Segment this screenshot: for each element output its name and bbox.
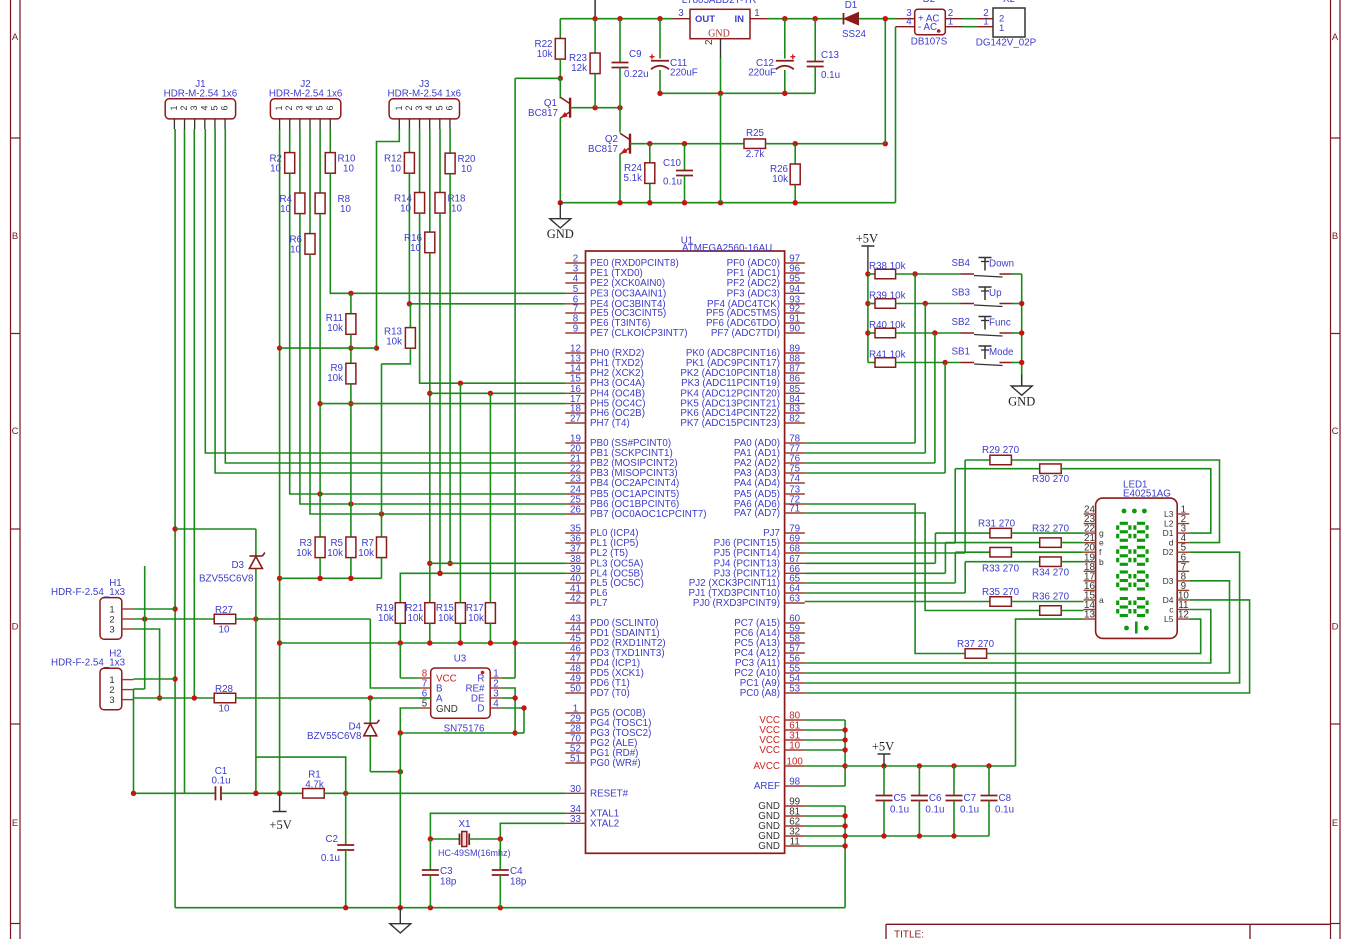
R15 column up to PH3 row	[459, 383, 461, 603]
resistor R4	[299, 129, 301, 193]
svg-text:HDR-M-2.54 1x6: HDR-M-2.54 1x6	[269, 89, 343, 100]
U3 D pin loop	[502, 708, 524, 733]
capacitor C12 220uF	[784, 19, 786, 59]
svg-text:1: 1	[983, 17, 988, 28]
U1 pin 72 PA6 (AD6)	[785, 503, 805, 505]
svg-text:D3: D3	[231, 560, 244, 571]
J1 pin2 wire	[184, 129, 186, 793]
svg-text:e: e	[1099, 538, 1104, 548]
svg-text:10k: 10k	[327, 323, 343, 334]
LED D2 pin5 to PC1 pin54	[805, 552, 1240, 683]
svg-text:6: 6	[220, 105, 230, 110]
U1 pin 58 PC5 (A13)	[785, 642, 805, 644]
svg-text:4: 4	[199, 105, 209, 110]
svg-text:D4: D4	[1163, 595, 1174, 605]
svg-text:2: 2	[179, 105, 189, 110]
long vertical net (Q1 collector / U3 R / RXD1)	[514, 78, 516, 678]
svg-text:33: 33	[570, 814, 581, 825]
svg-text:PK7 (ADC15PCINT23): PK7 (ADC15PCINT23)	[680, 418, 780, 429]
svg-text:TITLE:: TITLE:	[894, 930, 924, 939]
svg-text:2: 2	[704, 40, 715, 45]
U1 pin 77 PA1 (AD1)	[785, 452, 805, 454]
resistor R38	[868, 273, 875, 275]
vertical from +12 rail to R25	[884, 19, 886, 144]
svg-text:PE3 (OC3AAIN1): PE3 (OC3AAIN1)	[590, 288, 666, 299]
svg-text:53: 53	[789, 684, 800, 695]
resistor R33 270	[955, 551, 990, 553]
J1 pin4 wire to PB1	[205, 129, 565, 453]
U1 pin 34 XTAL1	[565, 812, 585, 814]
LED1 pin 5	[1177, 551, 1189, 553]
svg-text:IN: IN	[735, 14, 745, 25]
button ground bus	[1021, 274, 1023, 386]
R9 column down to R5	[350, 384, 352, 537]
svg-text:4: 4	[493, 699, 499, 710]
svg-text:R34 270: R34 270	[1032, 568, 1070, 579]
J3 pin2 net to PE4 (pin6)	[409, 173, 565, 304]
U1 pin 50 PD7 (T0)	[565, 692, 585, 694]
H1 pin2 wire / R27 row	[134, 618, 215, 620]
svg-text:D2: D2	[1163, 547, 1174, 557]
svg-text:94: 94	[789, 284, 800, 295]
svg-text:Down: Down	[989, 259, 1014, 270]
U1 pin 47 PD4 (ICP1)	[565, 662, 585, 664]
connector X2 DG142V_02P	[993, 8, 1025, 37]
svg-text:4: 4	[906, 17, 912, 28]
U1 pin 8 PE6 (T3INT6)	[565, 322, 585, 324]
U1 pin 56 PC3 (A11)	[785, 662, 805, 664]
vertical to PA row	[944, 363, 946, 474]
svg-text:2.7k: 2.7k	[746, 149, 765, 160]
resistor R37 270	[805, 504, 965, 654]
svg-text:E40251AG: E40251AG	[1123, 489, 1171, 500]
resistor R26	[794, 144, 796, 164]
svg-text:10: 10	[290, 245, 301, 256]
LED1 pin 6	[1177, 561, 1189, 563]
svg-text:3: 3	[109, 695, 114, 706]
svg-text:12k: 12k	[571, 63, 587, 74]
U1 pin 75 PA3 (AD3)	[785, 472, 805, 474]
U1 pin 63 PJ0 (RXD3PCINT9)	[785, 602, 805, 604]
svg-text:4.7k: 4.7k	[305, 780, 324, 791]
svg-text:9: 9	[573, 324, 578, 335]
svg-text:PB7 (OC0AOC1CPCINT7): PB7 (OC0AOC1CPCINT7)	[590, 509, 707, 520]
stub net above R27 node	[144, 566, 146, 689]
pin 3 OUT	[673, 18, 690, 20]
svg-text:10: 10	[789, 741, 800, 752]
resistor R29 270	[965, 459, 990, 461]
capacitor C7 0.1u	[953, 766, 955, 796]
svg-text:PB4 (OC2APCINT4): PB4 (OC2APCINT4)	[590, 478, 679, 489]
svg-text:10k: 10k	[358, 548, 374, 559]
power symbol +5V (cut at top)	[594, 0, 596, 19]
U1 pin 25 PB6 (OC1BPCINT6)	[565, 503, 585, 505]
J2 pin4 net to PB7	[310, 254, 565, 514]
wire row PD2 RXD1 (pin45) with pull resistor bottoms	[280, 642, 566, 644]
row J1p1 to D3	[175, 528, 256, 530]
svg-text:2: 2	[284, 105, 294, 110]
resistor R23	[594, 19, 596, 53]
U1 pin 29 PG4 (TOSC1)	[565, 722, 585, 724]
U1 pin 36 PL1 (ICP5)	[565, 542, 585, 544]
wire row to PH4 (pin16)	[430, 392, 566, 394]
LED1 pin 7	[1177, 570, 1189, 572]
LED1 pin 9	[1177, 589, 1189, 591]
U1 pin 65 PJ2 (XCK3PCINT11)	[785, 582, 805, 584]
svg-text:E: E	[1332, 818, 1338, 829]
svg-text:C2: C2	[325, 834, 338, 845]
svg-text:L2: L2	[1164, 519, 1174, 529]
indicator dots	[1122, 509, 1127, 514]
GND rail under regulator	[660, 92, 815, 94]
svg-text:L5: L5	[1164, 614, 1174, 624]
U1 pin 96 PF1 (ADC1)	[785, 272, 805, 274]
wire to gnd bus	[1012, 273, 1022, 275]
svg-text:3: 3	[294, 105, 304, 110]
U1 pin 27 PH7 (T4)	[565, 422, 585, 424]
U1 pin 48 PD5 (XCK1)	[565, 672, 585, 674]
svg-text:Func: Func	[989, 318, 1011, 329]
capacitor C1 0.1u	[214, 786, 216, 800]
resistor R8	[319, 129, 321, 193]
U1 pin 80 VCC	[785, 719, 805, 721]
J1 pin1 net (to H1/H2 pin1, bottom rail)	[174, 129, 176, 908]
svg-text:g: g	[1099, 528, 1104, 538]
svg-text:E: E	[12, 818, 18, 829]
svg-text:HDR-F-2.54_1x3: HDR-F-2.54_1x3	[51, 587, 126, 598]
D3 net jog row to C2 column	[256, 757, 346, 793]
U1 pin 42 PL7	[565, 602, 585, 604]
LED1 pin 4	[1177, 542, 1189, 544]
svg-text:220uF: 220uF	[670, 68, 698, 79]
svg-text:10k: 10k	[386, 337, 402, 348]
svg-text:HDR-M-2.54 1x6: HDR-M-2.54 1x6	[388, 89, 462, 100]
U1 pin 61 VCC	[785, 729, 805, 731]
svg-text:0.1u: 0.1u	[663, 177, 682, 188]
svg-text:SB1: SB1	[951, 347, 970, 358]
connector J1 HDR-M-2.54 1x6	[165, 99, 235, 119]
svg-text:42: 42	[570, 594, 581, 605]
U1 pin 14 PH2 (XCK2)	[565, 372, 585, 374]
sheet border frame	[10, 0, 12, 939]
regulator input rail	[767, 18, 844, 20]
U1 pin 38 PL3 (OC5A)	[565, 562, 585, 564]
U3 R pin wire to long vertical	[502, 677, 515, 679]
resistor R2	[289, 129, 291, 153]
svg-text:0.1u: 0.1u	[925, 805, 944, 816]
U1 pin 16 PH4 (OC4B)	[565, 392, 585, 394]
svg-text:PF3 (ADC3): PF3 (ADC3)	[727, 288, 780, 299]
resistor R1 4.7k	[303, 789, 325, 799]
wire PA row to MCU	[805, 452, 926, 454]
U1 pin 90 PF7 (ADC7TDI)	[785, 332, 805, 334]
U1 pin 10 VCC	[785, 749, 805, 751]
U1 pin 100 AVCC	[785, 765, 805, 767]
svg-text:SB3: SB3	[951, 288, 970, 299]
svg-text:10: 10	[270, 164, 281, 175]
U1 pin 92 PF5 (ADC5TMS)	[785, 312, 805, 314]
svg-text:+5V: +5V	[872, 740, 894, 754]
H2 pin1 wire	[134, 678, 176, 680]
capacitor C13 0.1u	[814, 19, 816, 62]
LED1 pin 13	[1084, 618, 1096, 620]
svg-text:C6: C6	[929, 793, 942, 804]
pushbutton SB4 Down	[961, 273, 975, 275]
resistor R5	[346, 537, 356, 558]
gnd column to bottom rail	[399, 733, 401, 908]
U1 pin 76 PA2 (AD2)	[785, 462, 805, 464]
U1 pin 55 PC2 (A10)	[785, 672, 805, 674]
U1 pin 1 PG5 (OC0B)	[565, 712, 585, 714]
resistor R15 10k	[455, 603, 465, 624]
J3 pin3 net to PH3 (pin15)	[420, 213, 566, 383]
svg-text:1: 1	[169, 105, 179, 110]
svg-text:BZV55C6V8: BZV55C6V8	[199, 574, 254, 585]
R37 to LED L5 pin12	[987, 619, 1201, 653]
H2 pin3 / R28 row	[134, 697, 215, 699]
U1 pin 91 PF6 (ADC6TDO)	[785, 322, 805, 324]
U1 pin 70 PG2 (ALE)	[565, 742, 585, 744]
U1 pin 32 GND	[785, 835, 805, 837]
regulator U2 L7805ABD2T-TR	[690, 9, 750, 38]
svg-text:30: 30	[570, 784, 581, 795]
U1 pin 39 PL4 (OC5B)	[565, 572, 585, 574]
svg-text:R39 10k: R39 10k	[869, 291, 906, 302]
svg-text:1: 1	[394, 105, 404, 110]
crystal X1 HC-49SM(16mhz)	[430, 838, 459, 840]
J3 pin1 net (jog left, down to R13 area)	[377, 129, 400, 348]
svg-text:GND: GND	[1008, 395, 1035, 409]
U1 pin 51 PG0 (WR#)	[565, 762, 585, 764]
U1 pin 11 GND	[785, 845, 805, 847]
wire R25 to D1 node	[766, 143, 886, 145]
svg-text:ATMEGA2560-16AU: ATMEGA2560-16AU	[682, 243, 772, 254]
ground symbol bottom	[399, 908, 401, 924]
svg-text:10: 10	[400, 204, 411, 215]
LED1 pin 3	[1177, 532, 1189, 534]
J2 pin2 net to PB5	[290, 173, 566, 494]
R17 column up to PH4 row	[489, 393, 491, 602]
svg-text:3: 3	[109, 625, 114, 636]
svg-text:10k: 10k	[408, 613, 424, 624]
U1 pin 67 PJ4 (PCINT13)	[785, 562, 805, 564]
svg-text:27: 27	[570, 414, 581, 425]
wire row PL3 (pin38)	[430, 562, 566, 564]
svg-text:PE7 (CLKOICP3INT7): PE7 (CLKOICP3INT7)	[590, 328, 687, 339]
U1 pin 5 PE3 (OC3AAIN1)	[565, 292, 585, 294]
7-seg digit pair	[1120, 522, 1128, 525]
resistor R41	[868, 362, 875, 364]
svg-text:SB2: SB2	[951, 317, 970, 328]
svg-text:D: D	[12, 622, 19, 633]
U3 pin 3	[490, 697, 502, 699]
resistor R21 10k	[425, 603, 435, 624]
wire row PH5 (pin17)	[320, 403, 565, 405]
U1 pin 71 PA7 (AD7)	[785, 512, 805, 514]
svg-text:10k: 10k	[438, 613, 454, 624]
wire to gnd bus	[1012, 362, 1022, 364]
svg-text:3: 3	[189, 105, 199, 110]
svg-text:0.1u: 0.1u	[890, 805, 909, 816]
svg-text:11: 11	[790, 837, 800, 848]
svg-text:82: 82	[789, 414, 800, 425]
resistor R18	[439, 129, 441, 193]
U1 pin 44 PD1 (SDAINT1)	[565, 632, 585, 634]
svg-text:R31 270: R31 270	[978, 519, 1016, 530]
U3 A pin wire (R28 row)	[419, 697, 431, 699]
svg-text:PF7 (ADC7TDI): PF7 (ADC7TDI)	[711, 328, 780, 339]
svg-text:10: 10	[340, 204, 351, 215]
svg-text:b: b	[1099, 557, 1104, 567]
pin 1 IN	[750, 18, 767, 20]
svg-text:10: 10	[219, 704, 230, 715]
LED1 pin 24	[1084, 513, 1096, 515]
wire R40 to SB2	[896, 332, 961, 334]
svg-text:23: 23	[570, 474, 581, 485]
LED1 pin 21	[1084, 542, 1096, 544]
7-seg digit pair	[1120, 597, 1128, 600]
capacitor C5 0.1u	[883, 766, 885, 796]
svg-text:d: d	[1169, 538, 1174, 548]
U1 pin 24 PB5 (OC1APCINT5)	[565, 493, 585, 495]
R28 to U3 A	[236, 697, 419, 699]
MCU U1 ATMEGA2560-16AU	[586, 251, 785, 853]
svg-text:10: 10	[410, 243, 421, 254]
svg-text:XTAL2: XTAL2	[590, 818, 619, 829]
U1 pin 4 PE2 (XCK0AIN0)	[565, 282, 585, 284]
wire row PL4 (pin39)	[400, 573, 565, 602]
U1 pin 73 PA5 (AD5)	[785, 493, 805, 495]
U1 pin 97 PF0 (ADC0)	[785, 262, 805, 264]
wire R38 to SB4	[896, 273, 961, 275]
resistor R13	[409, 304, 411, 328]
svg-text:R29 270: R29 270	[982, 445, 1020, 456]
svg-text:SB4: SB4	[951, 258, 970, 269]
U1 pin 37 PL2 (T5)	[565, 552, 585, 554]
resistor R19 10k	[395, 603, 405, 624]
svg-text:4: 4	[424, 105, 434, 110]
wire to gnd bus	[1012, 332, 1022, 334]
svg-text:- AC: - AC	[918, 22, 937, 33]
svg-text:1: 1	[948, 17, 953, 28]
resistor R34 270	[965, 561, 1039, 563]
svg-text:5: 5	[422, 699, 428, 710]
svg-text:GND: GND	[708, 29, 730, 40]
svg-text:C: C	[12, 426, 19, 437]
svg-text:10: 10	[280, 204, 291, 215]
svg-text:X2: X2	[1003, 0, 1015, 5]
node R22/Q1 collector	[558, 76, 563, 81]
svg-text:10: 10	[219, 625, 230, 636]
rail R3/R5/R7 bottoms	[280, 577, 382, 579]
svg-text:A: A	[12, 32, 19, 43]
U1 pin 57 PC4 (A12)	[785, 652, 805, 654]
svg-text:10: 10	[390, 164, 401, 175]
svg-text:HDR-F-2.54_1x3: HDR-F-2.54_1x3	[51, 658, 126, 669]
U3 pin 1	[490, 677, 502, 679]
resistor R16	[429, 129, 431, 232]
capacitor C9	[619, 19, 621, 63]
capacitor C11 220uF	[659, 19, 661, 59]
resistor R36 270	[805, 513, 1040, 611]
J3 pin4 / R21 column	[429, 253, 431, 603]
LED1 pin 20	[1084, 551, 1096, 553]
svg-text:A: A	[1332, 32, 1339, 43]
7-seg digit pair	[1120, 546, 1128, 549]
wire R39 to SB3	[896, 303, 961, 305]
svg-text:12: 12	[1178, 610, 1189, 621]
H2 pin2 drop to reset rail	[133, 689, 135, 793]
svg-text:10k: 10k	[327, 373, 343, 384]
U1 pin 78 PA0 (AD0)	[785, 442, 805, 444]
zener diode D4 BZV55C6V8	[369, 698, 371, 723]
svg-text:Up: Up	[989, 288, 1002, 299]
U1 pin 15 PH3 (OC4A)	[565, 382, 585, 384]
svg-text:AVCC: AVCC	[754, 761, 781, 772]
resistor R35 270	[805, 601, 990, 603]
LED1 pin 11	[1177, 609, 1189, 611]
LED1 pin 14	[1084, 609, 1096, 611]
decoupling gnd rail	[845, 835, 989, 837]
svg-text:10: 10	[451, 204, 462, 215]
svg-text:D2: D2	[923, 0, 936, 5]
U1 pin 79 PJ7	[785, 532, 805, 534]
U1 pin 28 PG3 (TOSC2)	[565, 732, 585, 734]
resistor R10	[329, 129, 331, 153]
connector H1 HDR-F-2.54 1x3	[100, 598, 122, 640]
wire PA row to MCU	[805, 442, 915, 444]
LED D3 pin8 to PC2 pin55	[805, 581, 1230, 673]
resistor R40	[868, 332, 875, 334]
ground rail below Q1/Q2	[560, 202, 895, 204]
power +5V for buttons	[867, 246, 869, 274]
LED1 pin 19	[1084, 561, 1096, 563]
U3 pin 5	[419, 707, 431, 709]
U1 pin 98 AREF	[785, 785, 805, 787]
svg-text:C4: C4	[510, 866, 523, 877]
svg-text:18p: 18p	[440, 877, 457, 888]
U1 pin 69 PJ6 (PCINT15)	[785, 542, 805, 544]
svg-text:10k: 10k	[468, 613, 484, 624]
U1 pin 59 PC6 (A14)	[785, 632, 805, 634]
svg-text:71: 71	[789, 504, 800, 515]
pushbutton SB1 Mode	[961, 362, 975, 364]
svg-text:D: D	[477, 704, 484, 715]
U1 pin 60 PC7 (A15)	[785, 622, 805, 624]
pin 4	[896, 26, 915, 28]
U1 pin 99 GND	[785, 805, 805, 807]
svg-text:51: 51	[570, 754, 581, 765]
U1 pin 94 PF3 (ADC3)	[785, 292, 805, 294]
XTAL1 wire	[430, 813, 565, 839]
wires to X2	[962, 18, 978, 20]
svg-text:BC817: BC817	[588, 144, 618, 155]
svg-text:B: B	[12, 231, 18, 242]
VCC bus	[805, 719, 845, 721]
svg-text:DG142V_02P: DG142V_02P	[976, 38, 1037, 49]
resistor R28	[214, 693, 236, 703]
svg-text:D: D	[1332, 622, 1339, 633]
U1 pin 83 PK6 (ADC14PCINT22)	[785, 412, 805, 414]
svg-text:74: 74	[789, 474, 800, 485]
svg-text:R27: R27	[215, 605, 233, 616]
svg-text:D3: D3	[1163, 576, 1174, 586]
svg-text:a: a	[1099, 595, 1104, 605]
svg-text:PC0 (A8): PC0 (A8)	[740, 688, 780, 699]
U3 pin 6	[419, 697, 431, 699]
U1 pin 33 XTAL2	[565, 822, 585, 824]
U1 pin 3 PE1 (TXD0)	[565, 272, 585, 274]
